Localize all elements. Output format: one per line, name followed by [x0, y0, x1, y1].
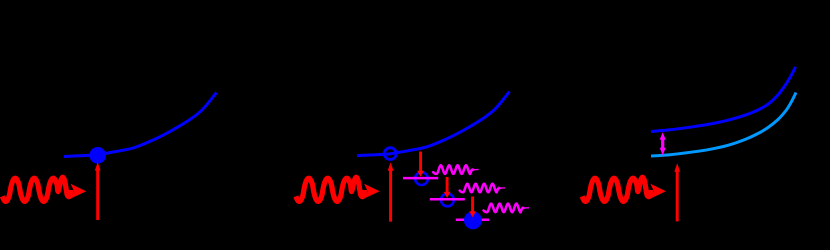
panel 3: pump photon wavy arrow [582, 177, 666, 201]
cascade step 2: level line [430, 198, 465, 201]
cascade step 2: relaxation red down arrow [444, 177, 451, 198]
cascade step 1: emitted photon wavy arrow [433, 165, 478, 174]
panel 2: exciton dispersion curve [357, 92, 510, 156]
panel 1: pump photon wavy arrow [2, 177, 86, 201]
panel 3: lower polariton curve [651, 93, 796, 157]
panel 3: Rabi splitting double arrow [660, 132, 666, 155]
panel 2: open circle state on curve [384, 148, 396, 160]
panel 2: pump photon wavy arrow [296, 177, 380, 201]
panel 1: exciton dispersion curve [64, 93, 217, 157]
panel 2: vertical excitation arrow [388, 162, 394, 221]
cascade step 3: emitted photon wavy arrow [484, 204, 529, 213]
cascade step 1: relaxation red down arrow [417, 152, 424, 177]
panel 1: electron dot on curve [89, 147, 106, 164]
panel 3: vertical excitation arrow [674, 163, 680, 221]
cascade step 1: level line [403, 177, 438, 180]
cascade step 3: final electron filled dot [464, 211, 482, 229]
cascade step 3: level line [456, 219, 489, 222]
cascade step 1: open circle [415, 172, 428, 185]
cascade step 2: open circle [441, 194, 454, 207]
panel 1: vertical excitation arrow [95, 162, 101, 220]
cascade step 2: emitted photon wavy arrow [460, 184, 505, 193]
cascade step 3: relaxation red down arrow [469, 197, 476, 218]
panel 3: upper polariton curve [651, 67, 796, 132]
